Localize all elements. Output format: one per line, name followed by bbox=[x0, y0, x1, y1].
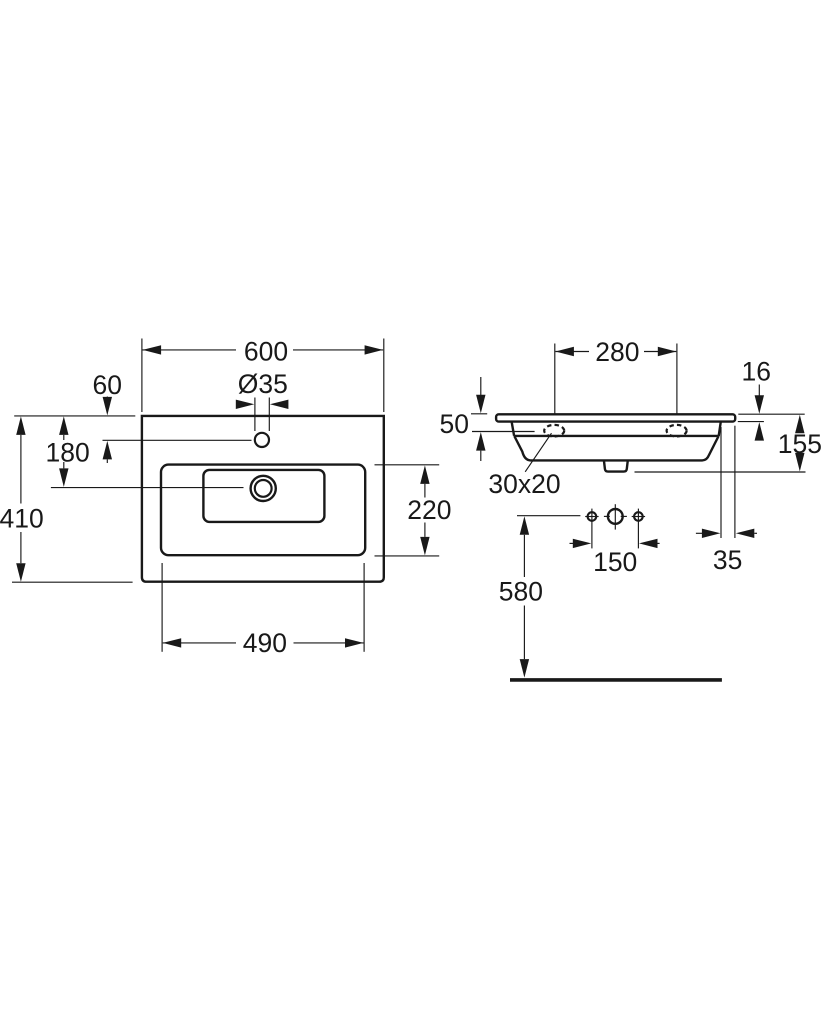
dim 490 line bbox=[163, 642, 236, 644]
dim 600 extension line left bbox=[141, 339, 143, 413]
dim 490 extension line right bbox=[363, 563, 365, 652]
dim 150 arrow left (points right) bbox=[570, 542, 575, 544]
svg-text:600: 600 bbox=[244, 336, 288, 366]
svg-text:30x20: 30x20 bbox=[488, 469, 560, 499]
dim 490 arrow left bbox=[163, 638, 182, 647]
dim 35 arrow right (points left) bbox=[736, 529, 755, 538]
svg-text:180: 180 bbox=[45, 437, 89, 467]
dim 490 arrow right bbox=[345, 638, 364, 647]
svg-text:280: 280 bbox=[595, 337, 639, 367]
drain centerline bbox=[51, 487, 244, 489]
tap hole right bbox=[634, 512, 643, 521]
dim 155 lower arrow (down) bbox=[795, 453, 804, 472]
dim 50 top tick bbox=[471, 413, 487, 415]
leader line 30x20 bbox=[525, 433, 551, 472]
basin inner ledge line (side view) bbox=[514, 435, 718, 437]
slab top extension line (right) bbox=[738, 413, 804, 415]
bottom edge extension line (left) bbox=[12, 581, 133, 583]
dim 280 arrow left bbox=[555, 347, 574, 356]
dim Ø35 extension line left bbox=[254, 398, 256, 432]
faucet hole (top view) bbox=[255, 433, 269, 447]
dim Ø35 arrow left bbox=[236, 400, 255, 409]
dim 410 upper arrow (up) bbox=[16, 416, 25, 435]
svg-text:35: 35 bbox=[713, 545, 742, 575]
svg-text:Ø35: Ø35 bbox=[238, 369, 288, 399]
dim 155 upper arrow (up) bbox=[795, 415, 804, 434]
dim 16 upper arrow (down) bbox=[758, 385, 760, 397]
dim 35 arrow left (points right) bbox=[696, 532, 703, 534]
fixing hole centerline (50 bottom reference) bbox=[472, 431, 535, 433]
dim 600 arrow right bbox=[365, 345, 384, 354]
dim 490 extension line left bbox=[161, 563, 163, 652]
dim 180 upper arrow (up) bbox=[59, 416, 68, 435]
dim 50 lower arrow (up) bbox=[476, 432, 485, 451]
dim 150 arrow right (points left) bbox=[639, 539, 658, 548]
dim 280 extension line right bbox=[676, 344, 678, 414]
dim 280 extension line left bbox=[554, 344, 556, 414]
dim 220 lower arrow (down) bbox=[424, 523, 426, 537]
dim 35 extension line left bbox=[720, 427, 722, 538]
basin bowl profile (side view) bbox=[514, 436, 718, 460]
dim 580 top reference line bbox=[517, 515, 580, 517]
dim 220 extension line bottom bbox=[375, 555, 440, 557]
top edge extension line (left) bbox=[14, 415, 135, 417]
crosshair left hole bbox=[585, 516, 598, 518]
crosshair center hole bbox=[614, 504, 616, 529]
dim 580 lower arrow (down) bbox=[523, 606, 525, 660]
basin inner rim (top view) bbox=[161, 465, 365, 556]
svg-text:410: 410 bbox=[0, 504, 44, 534]
dim 220 upper arrow (up) bbox=[420, 465, 429, 484]
dim 600 line bbox=[143, 349, 237, 351]
fixing hole 30x20 right (dashed) bbox=[667, 425, 687, 437]
fixing hole 30x20 left (dashed) bbox=[544, 425, 564, 437]
dim 220 extension line top bbox=[375, 464, 440, 466]
dim 410 lower arrow (down) bbox=[20, 532, 22, 563]
basin bowl (top view) bbox=[203, 470, 324, 522]
crosshair right hole bbox=[632, 516, 645, 518]
drain inner ring bbox=[255, 480, 272, 497]
floor line bbox=[510, 678, 722, 682]
faucet hole centerline bbox=[103, 439, 252, 441]
dim 600 arrow left bbox=[143, 345, 162, 354]
dim 580 upper arrow (up) bbox=[520, 516, 529, 535]
dim 35 extension line right bbox=[734, 426, 736, 538]
tap hole center bbox=[608, 509, 623, 524]
dim 600 extension line right bbox=[383, 339, 385, 413]
svg-text:60: 60 bbox=[92, 370, 121, 400]
drain stub (side view) bbox=[604, 460, 628, 471]
svg-text:580: 580 bbox=[499, 577, 543, 607]
svg-text:16: 16 bbox=[742, 357, 771, 387]
basin rim right wall (side view) bbox=[719, 422, 721, 436]
drain outer ring bbox=[251, 476, 276, 501]
dim 60 upper arrow (down) bbox=[106, 397, 108, 400]
svg-text:150: 150 bbox=[593, 547, 637, 577]
basin rim left wall (side view) bbox=[512, 422, 514, 436]
tap hole left (wall drilling view) bbox=[588, 512, 597, 521]
svg-text:220: 220 bbox=[407, 495, 451, 525]
dim 280 arrow right bbox=[658, 347, 677, 356]
slab bottom extension line (right) bbox=[738, 421, 764, 423]
dim 60 lower arrow (up) bbox=[103, 441, 112, 460]
dim 280 line bbox=[555, 351, 589, 353]
svg-text:490: 490 bbox=[243, 628, 287, 658]
basin outer body (top view) bbox=[142, 416, 384, 582]
dim 50 upper arrow (down) bbox=[480, 377, 482, 395]
dim Ø35 arrow right bbox=[270, 400, 289, 409]
dim Ø35 extension line right bbox=[268, 398, 270, 432]
countertop slab (side view) bbox=[496, 414, 735, 421]
mounting reference line (155 bottom) bbox=[635, 471, 806, 473]
dim 16 lower arrow (up) bbox=[755, 422, 764, 441]
dim 180 lower arrow (down) bbox=[63, 462, 65, 468]
svg-text:50: 50 bbox=[439, 409, 468, 439]
